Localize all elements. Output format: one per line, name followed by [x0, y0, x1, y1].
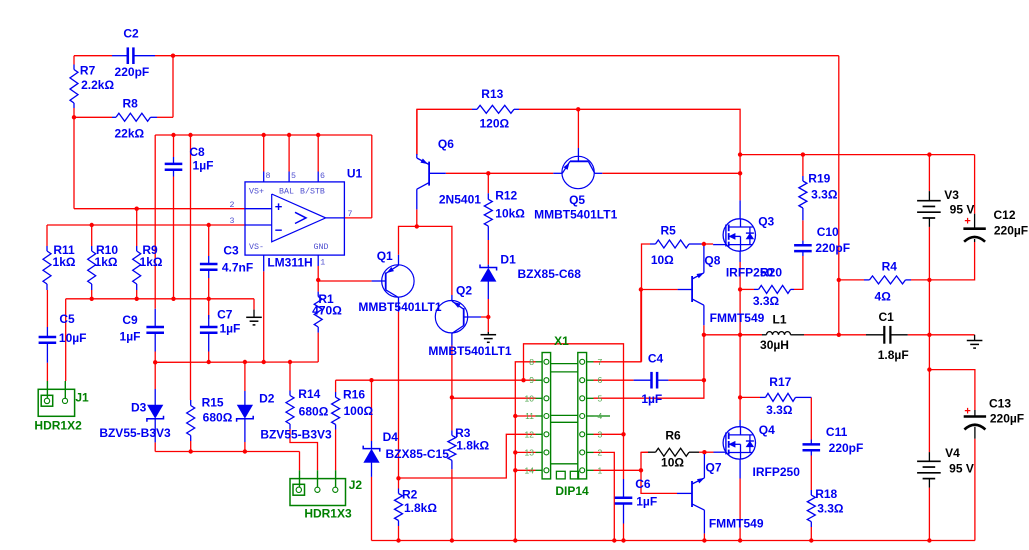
label R9 value — [140, 255, 163, 269]
label V3 value — [950, 202, 975, 216]
svg-text:X1: X1 — [554, 334, 569, 348]
label R10 value — [95, 255, 118, 269]
label C1 — [879, 310, 895, 324]
wire D3 bottom lead — [154, 442, 156, 451]
wire rail to ground G1 — [253, 299, 255, 310]
capacitor C1 — [866, 326, 908, 344]
label R5 — [661, 224, 677, 238]
label J2 part — [304, 507, 352, 521]
wire U1 pin5 riser — [288, 135, 290, 172]
node bottom rail pin2 — [612, 538, 616, 542]
svg-text:R17: R17 — [769, 375, 791, 389]
node R5/gate junction — [702, 242, 706, 246]
resistor R20 — [754, 285, 794, 293]
wire R7 bottom to R8 node — [73, 108, 75, 117]
node switch node left — [702, 333, 706, 337]
svg-text:220pF: 220pF — [115, 65, 150, 79]
wire R5 left bend — [642, 244, 651, 362]
svg-text:120Ω: 120Ω — [479, 117, 509, 131]
svg-text:6: 6 — [320, 172, 325, 181]
svg-text:3.3Ω: 3.3Ω — [766, 403, 793, 417]
wire R6 left lead — [641, 451, 648, 453]
wire R8 right lead — [157, 116, 173, 118]
X1 pin number 3 — [598, 429, 603, 439]
svg-text:B/STB: B/STB — [300, 186, 325, 196]
wire L1 left lead — [740, 334, 762, 336]
node C7 bottom on rail — [207, 360, 211, 364]
label C4 — [648, 352, 664, 366]
label R1 — [318, 292, 334, 306]
svg-text:95 V: 95 V — [950, 202, 975, 216]
resistor R8 — [112, 113, 157, 121]
svg-text:220µF: 220µF — [990, 412, 1024, 426]
svg-text:BZV55-B3V3: BZV55-B3V3 — [260, 428, 332, 442]
node R4/V3 junction — [927, 278, 931, 282]
svg-text:Q5: Q5 — [569, 193, 585, 207]
svg-text:R6: R6 — [665, 428, 681, 442]
wire negative rail y362 — [155, 361, 318, 363]
node R2 top junction — [396, 476, 400, 480]
resistor R4 — [864, 276, 911, 284]
wire Q4 source lead — [739, 479, 741, 541]
svg-text:R16: R16 — [343, 388, 365, 402]
svg-text:C6: C6 — [635, 477, 651, 491]
node Q5 collector junction — [738, 171, 742, 175]
svg-text:C8: C8 — [189, 145, 205, 159]
wire rail to J2 pin1 — [299, 452, 301, 471]
wire C13 bottom lead — [974, 439, 976, 541]
wire pin6 to C4 — [594, 379, 634, 381]
wire D4/R16 rail y380 — [336, 379, 536, 381]
svg-text:10Ω: 10Ω — [661, 456, 684, 470]
node R10 bottom — [90, 297, 94, 301]
capacitor C12 — [963, 214, 985, 242]
wire pin1 down to Q7 base — [641, 470, 677, 493]
label D1 part — [518, 267, 582, 281]
node C13 branch — [927, 367, 931, 371]
node C2-right junction — [171, 54, 175, 58]
wire Q6 emitter lead — [416, 109, 418, 154]
wire D3 top lead — [154, 362, 156, 389]
label R15 — [202, 395, 224, 409]
node loop-left / pin9 — [521, 378, 525, 382]
label Q8 part — [710, 311, 765, 325]
X1 pin number 5 — [598, 393, 603, 403]
X1 pin number 9 — [529, 375, 534, 385]
X1 pin number 12 — [525, 429, 535, 439]
node R9 top on pin2 rail — [135, 207, 139, 211]
wire rail to J1 pin2 — [65, 299, 67, 381]
node pin1 junction — [639, 468, 643, 472]
label V4 value — [949, 461, 974, 475]
wire R17 right bend — [810, 397, 812, 439]
svg-text:BZX85-C68: BZX85-C68 — [518, 267, 582, 281]
wire zener rail y451 — [155, 451, 299, 453]
svg-text:FMMT549: FMMT549 — [710, 311, 765, 325]
wire R11 top lead — [46, 225, 48, 246]
label R11 — [53, 243, 75, 257]
resistor R14 — [286, 391, 294, 430]
X1 pin number 2 — [598, 447, 603, 457]
wire R19 top lead — [802, 155, 804, 176]
wire R14 top lead — [289, 362, 291, 391]
svg-text:1µF: 1µF — [636, 495, 657, 509]
svg-text:10kΩ: 10kΩ — [495, 207, 525, 221]
wire D2 top lead — [244, 362, 246, 391]
wire R15 riser — [190, 135, 192, 400]
wire C3 bottom lead — [208, 278, 210, 299]
wire R15 bottom lead — [190, 441, 192, 452]
svg-text:D2: D2 — [259, 391, 275, 405]
svg-text:MMBT5401LT1: MMBT5401LT1 — [358, 300, 441, 314]
ground C1 — [967, 335, 983, 348]
label Q1 — [377, 249, 393, 263]
wire U1 pin7 lead — [344, 217, 371, 219]
svg-text:R13: R13 — [481, 87, 503, 101]
wire X1 loop — [524, 344, 624, 434]
node Q3 source / Q4 drain — [738, 333, 742, 337]
wire U1 pin4 riser — [263, 271, 265, 362]
wire R4 right lead — [911, 279, 929, 281]
label D2 — [259, 391, 275, 405]
ground analog — [246, 310, 262, 325]
label C4 value — [641, 392, 662, 406]
svg-text:+: + — [964, 216, 970, 228]
label V4 — [945, 446, 960, 460]
label Q6 part — [439, 193, 481, 207]
svg-text:C2: C2 — [123, 27, 139, 41]
wire pin8 wire — [515, 362, 535, 541]
label R19 value — [811, 188, 838, 202]
label L1 — [772, 312, 786, 326]
diode D2 — [237, 391, 254, 442]
label C2 — [123, 27, 139, 41]
node C3/C7 junction — [207, 297, 211, 301]
node R4 left junction — [837, 278, 841, 282]
node C8 top — [171, 133, 175, 137]
svg-text:C9: C9 — [122, 313, 138, 327]
capacitor C3 — [200, 256, 218, 278]
svg-text:3: 3 — [598, 429, 603, 439]
label C12 — [993, 208, 1015, 222]
svg-text:Q2: Q2 — [456, 284, 472, 298]
svg-text:5: 5 — [598, 393, 603, 403]
svg-text:Q8: Q8 — [704, 254, 720, 268]
label Q8 — [704, 254, 720, 268]
svg-text:12: 12 — [525, 429, 535, 439]
label D3 — [131, 400, 147, 414]
wire D4 bottom lead — [371, 477, 373, 541]
svg-text:11: 11 — [525, 411, 534, 421]
node R19 top — [801, 152, 805, 156]
wire R10 top lead — [91, 225, 93, 246]
wire R13 right to Q3 drain — [519, 109, 740, 173]
wire D1 to gnd node — [487, 299, 489, 332]
label J2 — [349, 478, 363, 492]
wire C5 to J1 pin1 — [46, 363, 48, 381]
wire C1 right lead — [908, 334, 975, 336]
node C3 top on pin3 rail — [207, 223, 211, 227]
resistor R1 — [314, 292, 322, 333]
node R15 bottom — [189, 449, 193, 453]
X1 pin number 7 — [598, 357, 603, 367]
label Q5 part — [534, 208, 617, 222]
resistor R12 — [484, 193, 492, 240]
svg-text:3.3Ω: 3.3Ω — [753, 294, 780, 308]
node U1 pin4 on rail — [262, 360, 266, 364]
svg-text:30µH: 30µH — [760, 338, 789, 352]
wire C9 riser from rail — [154, 135, 156, 309]
inductor L1 — [762, 332, 804, 335]
label R8 — [123, 97, 139, 111]
wire Q3 drain lead — [739, 173, 741, 200]
svg-text:C1: C1 — [879, 310, 895, 324]
resistor R3 — [448, 430, 456, 469]
resistor R13 — [472, 105, 519, 113]
op-amp U1 LM311H — [245, 172, 344, 272]
wire R1 bottom to rail — [317, 333, 319, 362]
wire C8 top lead — [173, 135, 175, 157]
svg-text:1kΩ: 1kΩ — [140, 255, 163, 269]
svg-text:L1: L1 — [772, 312, 786, 326]
svg-text:1µF: 1µF — [641, 392, 662, 406]
svg-text:R14: R14 — [298, 387, 320, 401]
node C8 bottom — [171, 297, 175, 301]
U1 internal label B/STB — [300, 186, 325, 196]
U1 pin number 8 — [266, 172, 271, 181]
svg-text:7: 7 — [348, 210, 353, 219]
wire C4 right lead — [668, 379, 704, 381]
svg-text:C13: C13 — [989, 397, 1011, 411]
svg-text:2: 2 — [230, 201, 235, 210]
node R10 top on pin3 rail — [90, 223, 94, 227]
svg-text:4Ω: 4Ω — [875, 289, 892, 303]
wire U1 pin7 output riser — [371, 135, 373, 218]
node bottom rail pin8 riser — [513, 538, 517, 542]
label X1 part — [555, 484, 589, 498]
wire R10 bottom lead — [91, 290, 93, 299]
svg-text:J2: J2 — [349, 478, 363, 492]
label R17 — [769, 375, 791, 389]
svg-text:Q4: Q4 — [759, 423, 775, 437]
X1 pin number 1 — [598, 465, 603, 475]
svg-text:C7: C7 — [217, 307, 233, 321]
connector J2 HDR1X3 — [290, 470, 346, 505]
wire L1 to C1 — [804, 334, 866, 336]
capacitor C8 — [165, 157, 183, 177]
U1 internal label GND — [314, 243, 329, 252]
node C1 / V3 rail junction — [927, 333, 931, 337]
svg-text:10µF: 10µF — [59, 331, 87, 345]
label R13 value — [479, 117, 509, 131]
capacitor C6 — [615, 479, 633, 524]
label R14 — [298, 387, 320, 401]
svg-text:8: 8 — [266, 172, 271, 181]
svg-text:3.3Ω: 3.3Ω — [811, 188, 838, 202]
label R20 — [760, 266, 782, 280]
U1 internal label VS- — [249, 243, 264, 252]
svg-text:95 V: 95 V — [949, 461, 974, 475]
wire U1 pin8 riser — [263, 135, 265, 172]
wire R3 top lead — [451, 397, 453, 430]
transistor Q4 IRFP250 — [714, 420, 756, 479]
svg-text:22kΩ: 22kΩ — [114, 127, 144, 141]
resistor R5 — [650, 240, 702, 248]
node R3 top / pin10 — [450, 395, 454, 399]
resistor R15 — [187, 400, 195, 441]
node pin3 / loop junction — [621, 432, 625, 436]
label R13 — [481, 87, 503, 101]
label Q2 — [456, 284, 472, 298]
wire Q5 base lead — [577, 109, 579, 148]
wire R12 to D1 — [487, 240, 489, 265]
label R12 — [495, 189, 517, 203]
label R15 value — [203, 410, 233, 424]
label R14 value — [299, 405, 329, 419]
svg-text:10Ω: 10Ω — [651, 253, 674, 267]
wire R2 top lead — [398, 478, 400, 488]
transistor Q5 MMBT5401LT1 — [553, 148, 602, 189]
X1 pin number 10 — [525, 393, 535, 403]
svg-text:4: 4 — [598, 411, 603, 421]
resistor R16 — [332, 392, 340, 430]
wire pin3 wire — [594, 433, 624, 435]
label C8 value — [193, 159, 214, 173]
node D2 bottom — [243, 449, 247, 453]
battery V4 — [917, 452, 941, 488]
wire pin14 wire — [515, 469, 535, 471]
label C6 — [635, 477, 651, 491]
label R6 value — [661, 456, 684, 470]
node U1 pin6 riser — [316, 133, 320, 137]
capacitor C7 — [200, 315, 218, 352]
wire switch node rail — [704, 334, 762, 336]
label R7 value — [81, 78, 114, 92]
wire R17 left lead — [740, 396, 760, 398]
svg-text:R20: R20 — [760, 266, 782, 280]
wire R1 top lead — [317, 280, 319, 292]
wire Q2 collector lead — [451, 346, 453, 398]
resistor R2 — [395, 489, 403, 527]
capacitor C9 — [146, 309, 164, 352]
node C4 right junction — [702, 378, 706, 382]
label C1 value — [878, 348, 909, 362]
node U1 pin8 riser — [262, 133, 266, 137]
svg-text:Q7: Q7 — [705, 461, 721, 475]
svg-text:C3: C3 — [223, 244, 239, 258]
wire Q6 collector lead — [416, 209, 418, 226]
label R5 value — [651, 253, 674, 267]
wire top feedback rail — [155, 55, 839, 57]
svg-text:D1: D1 — [500, 252, 516, 266]
U1 pin number 1 — [320, 258, 325, 267]
wire R4 left lead — [839, 279, 864, 281]
label R19 — [808, 172, 830, 186]
wire pin1 wire — [594, 469, 642, 471]
node R9 bottom — [135, 297, 139, 301]
X1 pin number 14 — [525, 465, 535, 475]
svg-text:−: − — [275, 223, 283, 238]
resistor R11 — [43, 246, 51, 290]
label R18 — [815, 487, 837, 501]
resistor R17 — [760, 393, 811, 401]
svg-text:7: 7 — [598, 357, 603, 367]
svg-text:1kΩ: 1kΩ — [95, 255, 118, 269]
label R2 — [402, 488, 418, 502]
svg-text:V3: V3 — [944, 188, 959, 202]
ground D1 — [481, 332, 497, 342]
label C12 value — [994, 224, 1028, 238]
battery V3 — [917, 191, 941, 227]
svg-text:C12: C12 — [993, 208, 1015, 222]
wire R7 top — [73, 56, 75, 65]
wire pin13 wire — [515, 451, 535, 453]
U1 pin number 6 — [320, 172, 325, 181]
label R10 — [96, 243, 118, 257]
wire R12 top lead — [487, 173, 489, 193]
wire U1 pin2 rail — [74, 208, 245, 210]
label R8 value — [114, 127, 144, 141]
wire R18 bottom lead — [810, 527, 812, 541]
svg-text:1kΩ: 1kΩ — [53, 255, 76, 269]
node R17 tap — [738, 395, 742, 399]
wire U1 pin1 lead — [317, 266, 319, 280]
X1 pin number 11 — [525, 411, 534, 421]
svg-text:R5: R5 — [661, 224, 677, 238]
node C9/D3 rail junction — [153, 360, 157, 364]
svg-text:2: 2 — [598, 447, 603, 457]
svg-text:HDR1X3: HDR1X3 — [304, 507, 352, 521]
svg-text:R7: R7 — [80, 63, 96, 77]
svg-text:HDR1X2: HDR1X2 — [34, 419, 82, 433]
label Q4 part — [753, 465, 801, 479]
wire R14 bottom bend — [290, 429, 318, 470]
U1 pin number 5 — [291, 172, 296, 181]
svg-text:R18: R18 — [815, 487, 837, 501]
svg-text:+: + — [964, 406, 970, 418]
label Q5 — [569, 193, 585, 207]
wire analog ground rail — [66, 298, 254, 300]
wire Q8 base wire — [642, 289, 678, 291]
wire C2 left lead — [74, 55, 112, 57]
svg-text:R8: R8 — [123, 97, 139, 111]
label R11 value — [53, 255, 76, 269]
label C13 value — [990, 412, 1024, 426]
label L1 value — [760, 338, 789, 352]
transistor Q7 FMMT549 — [677, 454, 704, 533]
resistor R18 — [807, 490, 815, 527]
node pin14 on riser — [513, 468, 517, 472]
node +95V branch — [738, 152, 742, 156]
label R9 — [142, 243, 158, 257]
label C11 value — [829, 441, 864, 455]
X1 pin number 8 — [529, 357, 534, 367]
label R2 value — [404, 501, 437, 515]
label C7 — [217, 307, 233, 321]
svg-text:1.8µF: 1.8µF — [878, 348, 909, 362]
label R7 — [80, 63, 96, 77]
svg-text:Q3: Q3 — [758, 215, 774, 229]
wire Q2 base wire — [481, 316, 488, 318]
label R1 value — [312, 304, 342, 318]
label D2 part — [260, 428, 332, 442]
node R12 top — [486, 171, 490, 175]
X1 pin number 6 — [598, 375, 603, 385]
svg-text:C10: C10 — [817, 225, 839, 239]
C13 plus mark — [964, 406, 970, 418]
wire R11 bottom to C5 — [46, 290, 48, 327]
svg-text:14: 14 — [525, 465, 535, 475]
